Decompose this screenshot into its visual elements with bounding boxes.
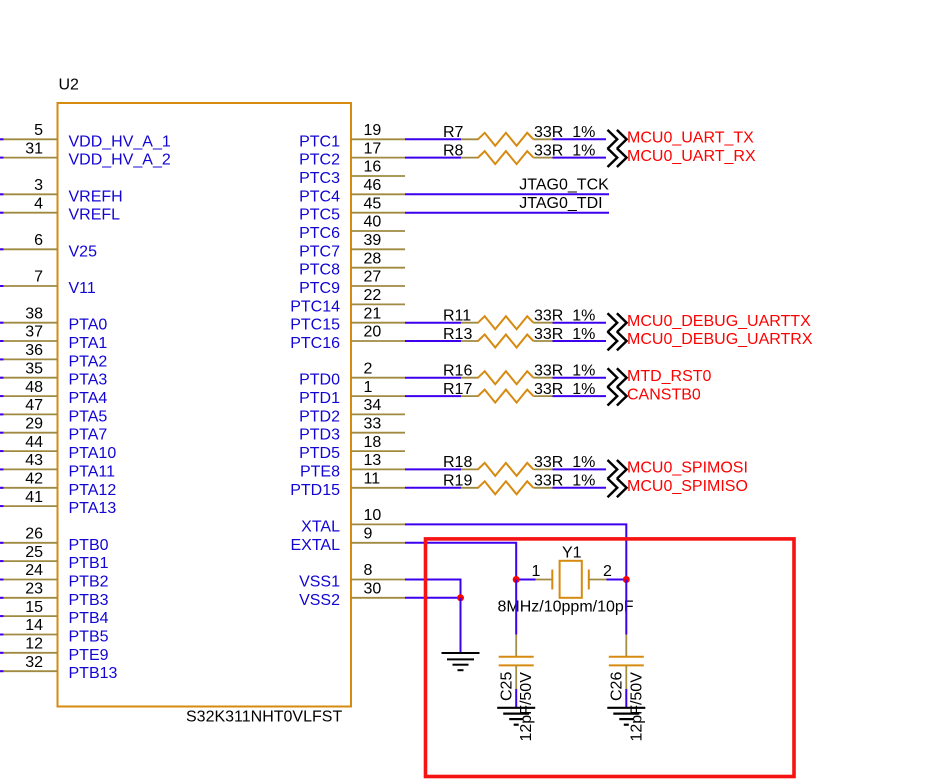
svg-text:PTB4: PTB4: [69, 610, 109, 627]
svg-text:23: 23: [25, 581, 43, 598]
wire R16 to net flag: [553, 377, 607, 379]
svg-text:28: 28: [364, 250, 382, 267]
svg-text:30: 30: [364, 581, 382, 598]
svg-text:34: 34: [364, 397, 382, 414]
svg-text:PTC3: PTC3: [299, 170, 340, 187]
wire pin to R17: [405, 395, 461, 397]
svg-text:U2: U2: [59, 77, 80, 94]
junction node VSS: [457, 594, 464, 601]
net flag MCU0_UART_RX (off-sheet chevron): [608, 148, 756, 167]
svg-text:VREFL: VREFL: [69, 207, 121, 224]
svg-text:MCU0_SPIMISO: MCU0_SPIMISO: [627, 478, 748, 495]
pin 16 (PTC3): [299, 159, 405, 187]
junction node crystal pin 1: [513, 576, 520, 583]
svg-text:PTB3: PTB3: [69, 592, 109, 609]
svg-text:PTE8: PTE8: [300, 463, 340, 480]
svg-text:13: 13: [364, 452, 382, 469]
svg-text:PTA1: PTA1: [69, 335, 108, 352]
svg-text:37: 37: [25, 324, 43, 341]
svg-text:22: 22: [364, 287, 382, 304]
svg-text:JTAG0_TDI: JTAG0_TDI: [519, 195, 602, 212]
svg-text:PTA4: PTA4: [69, 390, 108, 407]
wire EXTAL (pin 9) to crystal pin 1: [405, 543, 516, 580]
wire R13 to net flag: [553, 340, 607, 342]
svg-text:PTC2: PTC2: [299, 152, 340, 169]
svg-text:MCU0_UART_RX: MCU0_UART_RX: [627, 148, 756, 165]
svg-text:14: 14: [25, 617, 43, 634]
svg-text:47: 47: [25, 397, 43, 414]
wire net JTAG0_TDI: [405, 212, 609, 214]
svg-text:41: 41: [25, 489, 43, 506]
svg-text:35: 35: [25, 360, 43, 377]
resistor R13 33R_1%: [443, 326, 595, 348]
svg-text:V11: V11: [69, 280, 96, 297]
svg-text:4: 4: [34, 195, 43, 212]
svg-text:Y1: Y1: [562, 545, 582, 562]
crystal Y1 8MHz/10ppm/10pF: [498, 545, 634, 616]
svg-text:19: 19: [364, 122, 382, 139]
svg-text:32: 32: [25, 654, 43, 671]
resistor R19 33R_1%: [443, 473, 595, 495]
pin 3 (VREFH): [0, 177, 123, 205]
ground symbol below C25: [497, 708, 535, 725]
pin 8 (VSS1): [299, 562, 405, 590]
pin 35 (PTA3): [0, 360, 107, 388]
wire R7 to net flag: [553, 138, 607, 140]
svg-text:C25: C25: [499, 672, 516, 701]
svg-text:PTD2: PTD2: [299, 408, 340, 425]
pin 33 (PTD3): [299, 415, 405, 443]
net flag MTD_RST0 (off-sheet chevron): [608, 368, 712, 387]
pin 47 (PTA5): [0, 397, 107, 425]
wire pin to R7: [405, 138, 461, 140]
svg-text:38: 38: [25, 305, 43, 322]
net flag MCU0_DEBUG_UARTRX (off-sheet chevron): [608, 331, 813, 350]
wire C25 to ground: [515, 689, 517, 707]
svg-text:PTC15: PTC15: [290, 317, 340, 334]
svg-text:XTAL: XTAL: [301, 518, 340, 535]
capacitor C26 12pF/50V: [609, 635, 646, 742]
pin 34 (PTD2): [299, 397, 405, 425]
svg-text:C26: C26: [609, 672, 626, 701]
wire net JTAG0_TCK: [405, 193, 609, 195]
wire R11 to net flag: [553, 322, 607, 324]
svg-text:7: 7: [34, 269, 43, 286]
svg-text:R13: R13: [443, 326, 472, 343]
ground symbol below C26: [607, 708, 645, 725]
pin 32 (PTB13): [0, 654, 118, 682]
wire R17 to net flag: [553, 395, 607, 397]
pin 21 (PTC15): [290, 305, 405, 333]
svg-text:36: 36: [25, 342, 43, 359]
svg-text:1: 1: [532, 563, 541, 580]
wire pin to R16: [405, 377, 461, 379]
net flag MCU0_UART_TX (off-sheet chevron): [608, 130, 755, 149]
net flag MCU0_SPIMOSI (off-sheet chevron): [608, 460, 748, 479]
svg-text:39: 39: [364, 232, 382, 249]
svg-text:MCU0_DEBUG_UARTRX: MCU0_DEBUG_UARTRX: [627, 331, 813, 348]
pin 28 (PTC8): [299, 250, 405, 278]
wire pin to R13: [405, 340, 461, 342]
svg-text:48: 48: [25, 379, 43, 396]
svg-text:26: 26: [25, 526, 43, 543]
svg-text:12: 12: [25, 636, 43, 653]
svg-text:PTC9: PTC9: [299, 280, 340, 297]
pin 25 (PTB1): [0, 544, 109, 572]
pin 43 (PTA11): [0, 452, 115, 480]
pin 11 (PTD15): [290, 471, 405, 499]
svg-text:2: 2: [364, 360, 373, 377]
resistor R8 33R_1%: [443, 142, 595, 164]
pin 41 (PTA13): [0, 489, 116, 517]
pin 44 (PTA10): [0, 434, 116, 462]
wire crystal right lead: [607, 579, 627, 581]
svg-text:PTD15: PTD15: [290, 482, 340, 499]
svg-text:46: 46: [364, 177, 382, 194]
pin 15 (PTB4): [0, 599, 109, 627]
svg-text:12pF/50V: 12pF/50V: [518, 672, 535, 742]
svg-text:12pF/50V: 12pF/50V: [628, 672, 645, 742]
svg-text:MCU0_SPIMOSI: MCU0_SPIMOSI: [627, 460, 748, 477]
wire VSS2 (pin 30): [405, 597, 461, 599]
svg-text:MTD_RST0: MTD_RST0: [627, 368, 712, 385]
pin 12 (PTE9): [0, 636, 109, 664]
red highlight box around crystal circuit: [426, 539, 795, 777]
pin 40 (PTC6): [299, 214, 405, 242]
svg-text:PTA3: PTA3: [69, 372, 108, 389]
pin 23 (PTB3): [0, 581, 109, 609]
svg-text:18: 18: [364, 434, 382, 451]
pin 30 (VSS2): [299, 581, 405, 609]
pin 10 (XTAL): [301, 507, 405, 535]
svg-text:EXTAL: EXTAL: [291, 537, 341, 554]
svg-text:PTC4: PTC4: [299, 188, 340, 205]
svg-text:PTC7: PTC7: [299, 243, 340, 260]
svg-text:VREFH: VREFH: [69, 188, 123, 205]
svg-text:20: 20: [364, 324, 382, 341]
svg-text:17: 17: [364, 140, 382, 157]
svg-text:40: 40: [364, 214, 382, 231]
wire crystal left lead: [516, 579, 535, 581]
svg-text:R11: R11: [443, 308, 471, 325]
svg-text:3: 3: [34, 177, 43, 194]
pin 13 (PTE8): [300, 452, 405, 480]
svg-text:R17: R17: [443, 381, 472, 398]
svg-text:PTB2: PTB2: [69, 574, 109, 591]
pin 48 (PTA4): [0, 379, 107, 407]
svg-text:CANSTB0: CANSTB0: [627, 386, 701, 403]
svg-text:S32K311NHT0VLFST: S32K311NHT0VLFST: [186, 709, 342, 726]
resistor R18 33R_1%: [443, 454, 595, 476]
svg-text:MCU0_UART_TX: MCU0_UART_TX: [627, 130, 754, 147]
svg-text:JTAG0_TCK: JTAG0_TCK: [519, 177, 609, 194]
pin 2 (PTD0): [299, 360, 405, 388]
svg-text:42: 42: [25, 471, 43, 488]
svg-text:1: 1: [364, 379, 373, 396]
pin 38 (PTA0): [0, 305, 107, 333]
IC U2 body rectangle: [58, 103, 352, 707]
pin 5 (VDD_HV_A_1): [0, 122, 171, 150]
svg-text:VDD_HV_A_2: VDD_HV_A_2: [69, 152, 171, 169]
wire R18 to net flag: [553, 468, 607, 470]
svg-text:PTA7: PTA7: [69, 427, 108, 444]
svg-text:PTD3: PTD3: [299, 427, 340, 444]
pin 18 (PTD5): [299, 434, 405, 462]
svg-text:PTC14: PTC14: [290, 298, 340, 315]
svg-text:9: 9: [364, 526, 373, 543]
pin 6 (V25): [0, 232, 97, 260]
capacitor C25 12pF/50V: [499, 635, 536, 742]
pin 36 (PTA2): [0, 342, 107, 370]
svg-text:15: 15: [25, 599, 43, 616]
pin 31 (VDD_HV_A_2): [0, 140, 171, 168]
pin 24 (PTB2): [0, 562, 109, 590]
svg-text:27: 27: [364, 269, 382, 286]
svg-text:PTA13: PTA13: [69, 500, 117, 517]
svg-text:R7: R7: [443, 124, 464, 141]
ground symbol GND: [442, 653, 480, 670]
wire pin to R18: [405, 468, 461, 470]
pin 19 (PTC1): [299, 122, 405, 150]
svg-text:PTC8: PTC8: [299, 262, 340, 279]
svg-text:6: 6: [34, 232, 43, 249]
svg-text:V25: V25: [69, 243, 98, 260]
wire VSS1 (pin 8): [405, 580, 461, 598]
wire R19 to net flag: [553, 487, 607, 489]
svg-text:10: 10: [364, 507, 382, 524]
pin 22 (PTC14): [290, 287, 405, 315]
svg-text:31: 31: [25, 140, 43, 157]
net flag MCU0_DEBUG_UARTTX (off-sheet chevron): [608, 313, 812, 332]
wire C26 to ground: [625, 689, 627, 707]
svg-text:PTA10: PTA10: [69, 445, 117, 462]
svg-text:R8: R8: [443, 142, 464, 159]
svg-text:R19: R19: [443, 473, 472, 490]
svg-text:PTC5: PTC5: [299, 207, 340, 224]
svg-text:PTA0: PTA0: [69, 317, 108, 334]
svg-text:PTA12: PTA12: [69, 482, 117, 499]
svg-text:25: 25: [25, 544, 43, 561]
net flag CANSTB0 (off-sheet chevron): [608, 386, 701, 405]
pin 45 (PTC5): [299, 195, 405, 223]
wire crystal node down to C25: [515, 580, 517, 635]
pin 9 (EXTAL): [291, 526, 406, 554]
svg-text:5: 5: [34, 122, 43, 139]
svg-text:R18: R18: [443, 454, 472, 471]
wire pin to R19: [405, 487, 461, 489]
svg-text:PTB0: PTB0: [69, 537, 109, 554]
wire VSS junction to ground: [460, 598, 462, 653]
svg-text:PTC16: PTC16: [290, 335, 340, 352]
resistor R11 33R_1%: [443, 308, 595, 330]
svg-text:11: 11: [364, 471, 381, 488]
svg-text:PTB5: PTB5: [69, 629, 109, 646]
wire R8 to net flag: [553, 157, 607, 159]
svg-text:8MHz/10ppm/10pF: 8MHz/10ppm/10pF: [498, 599, 634, 616]
svg-text:PTC6: PTC6: [299, 225, 340, 242]
svg-text:45: 45: [364, 195, 382, 212]
svg-text:8: 8: [364, 562, 373, 579]
svg-text:24: 24: [25, 562, 43, 579]
svg-text:21: 21: [364, 305, 382, 322]
svg-text:PTD0: PTD0: [299, 372, 340, 389]
pin 26 (PTB0): [0, 526, 109, 554]
pin 1 (PTD1): [299, 379, 405, 407]
pin 17 (PTC2): [299, 140, 405, 168]
wire pin to R8: [405, 157, 461, 159]
wire pin to R11: [405, 322, 461, 324]
svg-text:R16: R16: [443, 363, 472, 380]
svg-text:PTC1: PTC1: [299, 133, 340, 150]
svg-text:43: 43: [25, 452, 43, 469]
svg-text:MCU0_DEBUG_UARTTX: MCU0_DEBUG_UARTTX: [627, 313, 811, 330]
svg-text:16: 16: [364, 159, 382, 176]
pin 29 (PTA7): [0, 415, 107, 443]
resistor R17 33R_1%: [443, 381, 595, 403]
pin 42 (PTA12): [0, 471, 116, 499]
svg-text:VSS1: VSS1: [299, 574, 340, 591]
svg-text:2: 2: [603, 563, 612, 580]
pin 27 (PTC9): [299, 269, 405, 297]
junction node crystal pin 2: [623, 576, 630, 583]
pin 46 (PTC4): [299, 177, 405, 205]
wire XTAL (pin 10) to crystal pin 2: [405, 524, 626, 579]
pin 37 (PTA1): [0, 324, 107, 352]
net flag MCU0_SPIMISO (off-sheet chevron): [608, 478, 748, 497]
wire crystal node down to C26: [625, 580, 627, 635]
pin 4 (VREFL): [0, 195, 120, 223]
pin 39 (PTC7): [299, 232, 405, 260]
svg-text:PTE9: PTE9: [69, 647, 109, 664]
pin 20 (PTC16): [290, 324, 405, 352]
svg-text:PTB13: PTB13: [69, 665, 118, 682]
svg-text:VSS2: VSS2: [299, 592, 340, 609]
svg-text:33: 33: [364, 415, 382, 432]
resistor R7 33R_1%: [443, 124, 595, 146]
svg-text:44: 44: [25, 434, 43, 451]
svg-text:PTA5: PTA5: [69, 408, 108, 425]
svg-text:PTA2: PTA2: [69, 353, 108, 370]
resistor R16 33R_1%: [443, 363, 595, 385]
svg-text:PTD1: PTD1: [299, 390, 340, 407]
pin 7 (V11): [0, 269, 96, 297]
svg-text:PTD5: PTD5: [299, 445, 340, 462]
svg-text:VDD_HV_A_1: VDD_HV_A_1: [69, 133, 171, 150]
svg-text:29: 29: [25, 415, 43, 432]
pin 14 (PTB5): [0, 617, 109, 645]
svg-text:PTB1: PTB1: [69, 555, 109, 572]
svg-text:PTA11: PTA11: [69, 463, 116, 480]
